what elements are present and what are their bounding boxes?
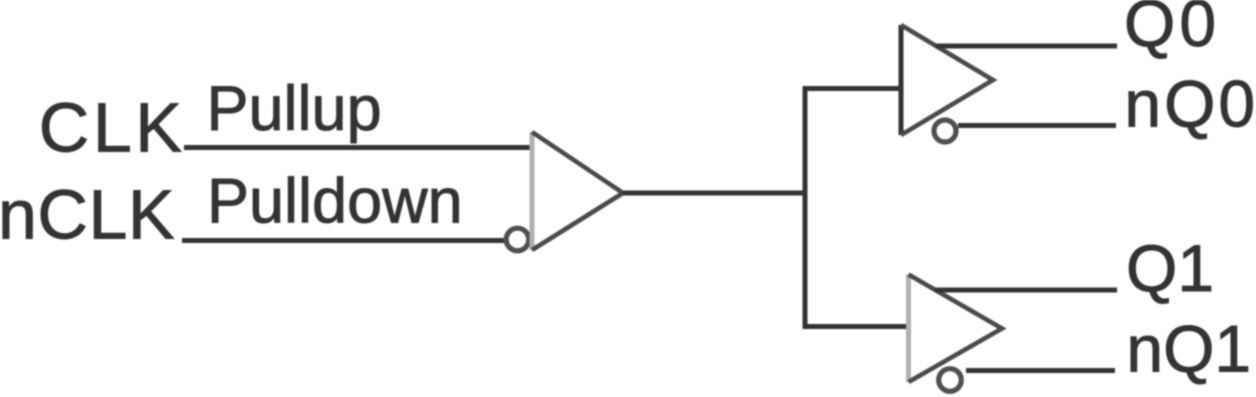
inverting bubble on U1 nCLK input [506, 228, 529, 251]
svg-text:Q1: Q1 [1126, 231, 1214, 305]
wire nQ0 output [958, 123, 1116, 128]
svg-text:Q0: Q0 [1124, 0, 1220, 60]
output buffer U2 [901, 25, 993, 135]
svg-text:nCLK: nCLK [0, 176, 175, 254]
output buffer U3 [909, 275, 1003, 383]
svg-text:CLK: CLK [39, 89, 186, 167]
wire U1 output to fanout node [623, 191, 807, 196]
wire nQ1 output [966, 368, 1115, 373]
fanout node trunk wire [803, 86, 808, 329]
wire Q0 output [936, 44, 1117, 49]
svg-text:Pullup: Pullup [207, 74, 382, 144]
svg-text:nQ0: nQ0 [1124, 67, 1256, 141]
input buffer U1 [532, 132, 623, 250]
wire nCLK input to U1 inverting bubble [182, 238, 504, 243]
svg-text:nQ1: nQ1 [1126, 312, 1251, 386]
wire fanout node to buffer U2 [803, 86, 902, 91]
wire fanout node to buffer U3 [803, 324, 910, 329]
wire CLK input to buffer U1 [184, 145, 532, 150]
inverting bubble on U3 nQ1 output [939, 369, 962, 392]
inverting bubble on U2 nQ0 output [934, 120, 956, 142]
wire Q1 output [935, 288, 1117, 293]
svg-text:Pulldown: Pulldown [207, 167, 463, 237]
